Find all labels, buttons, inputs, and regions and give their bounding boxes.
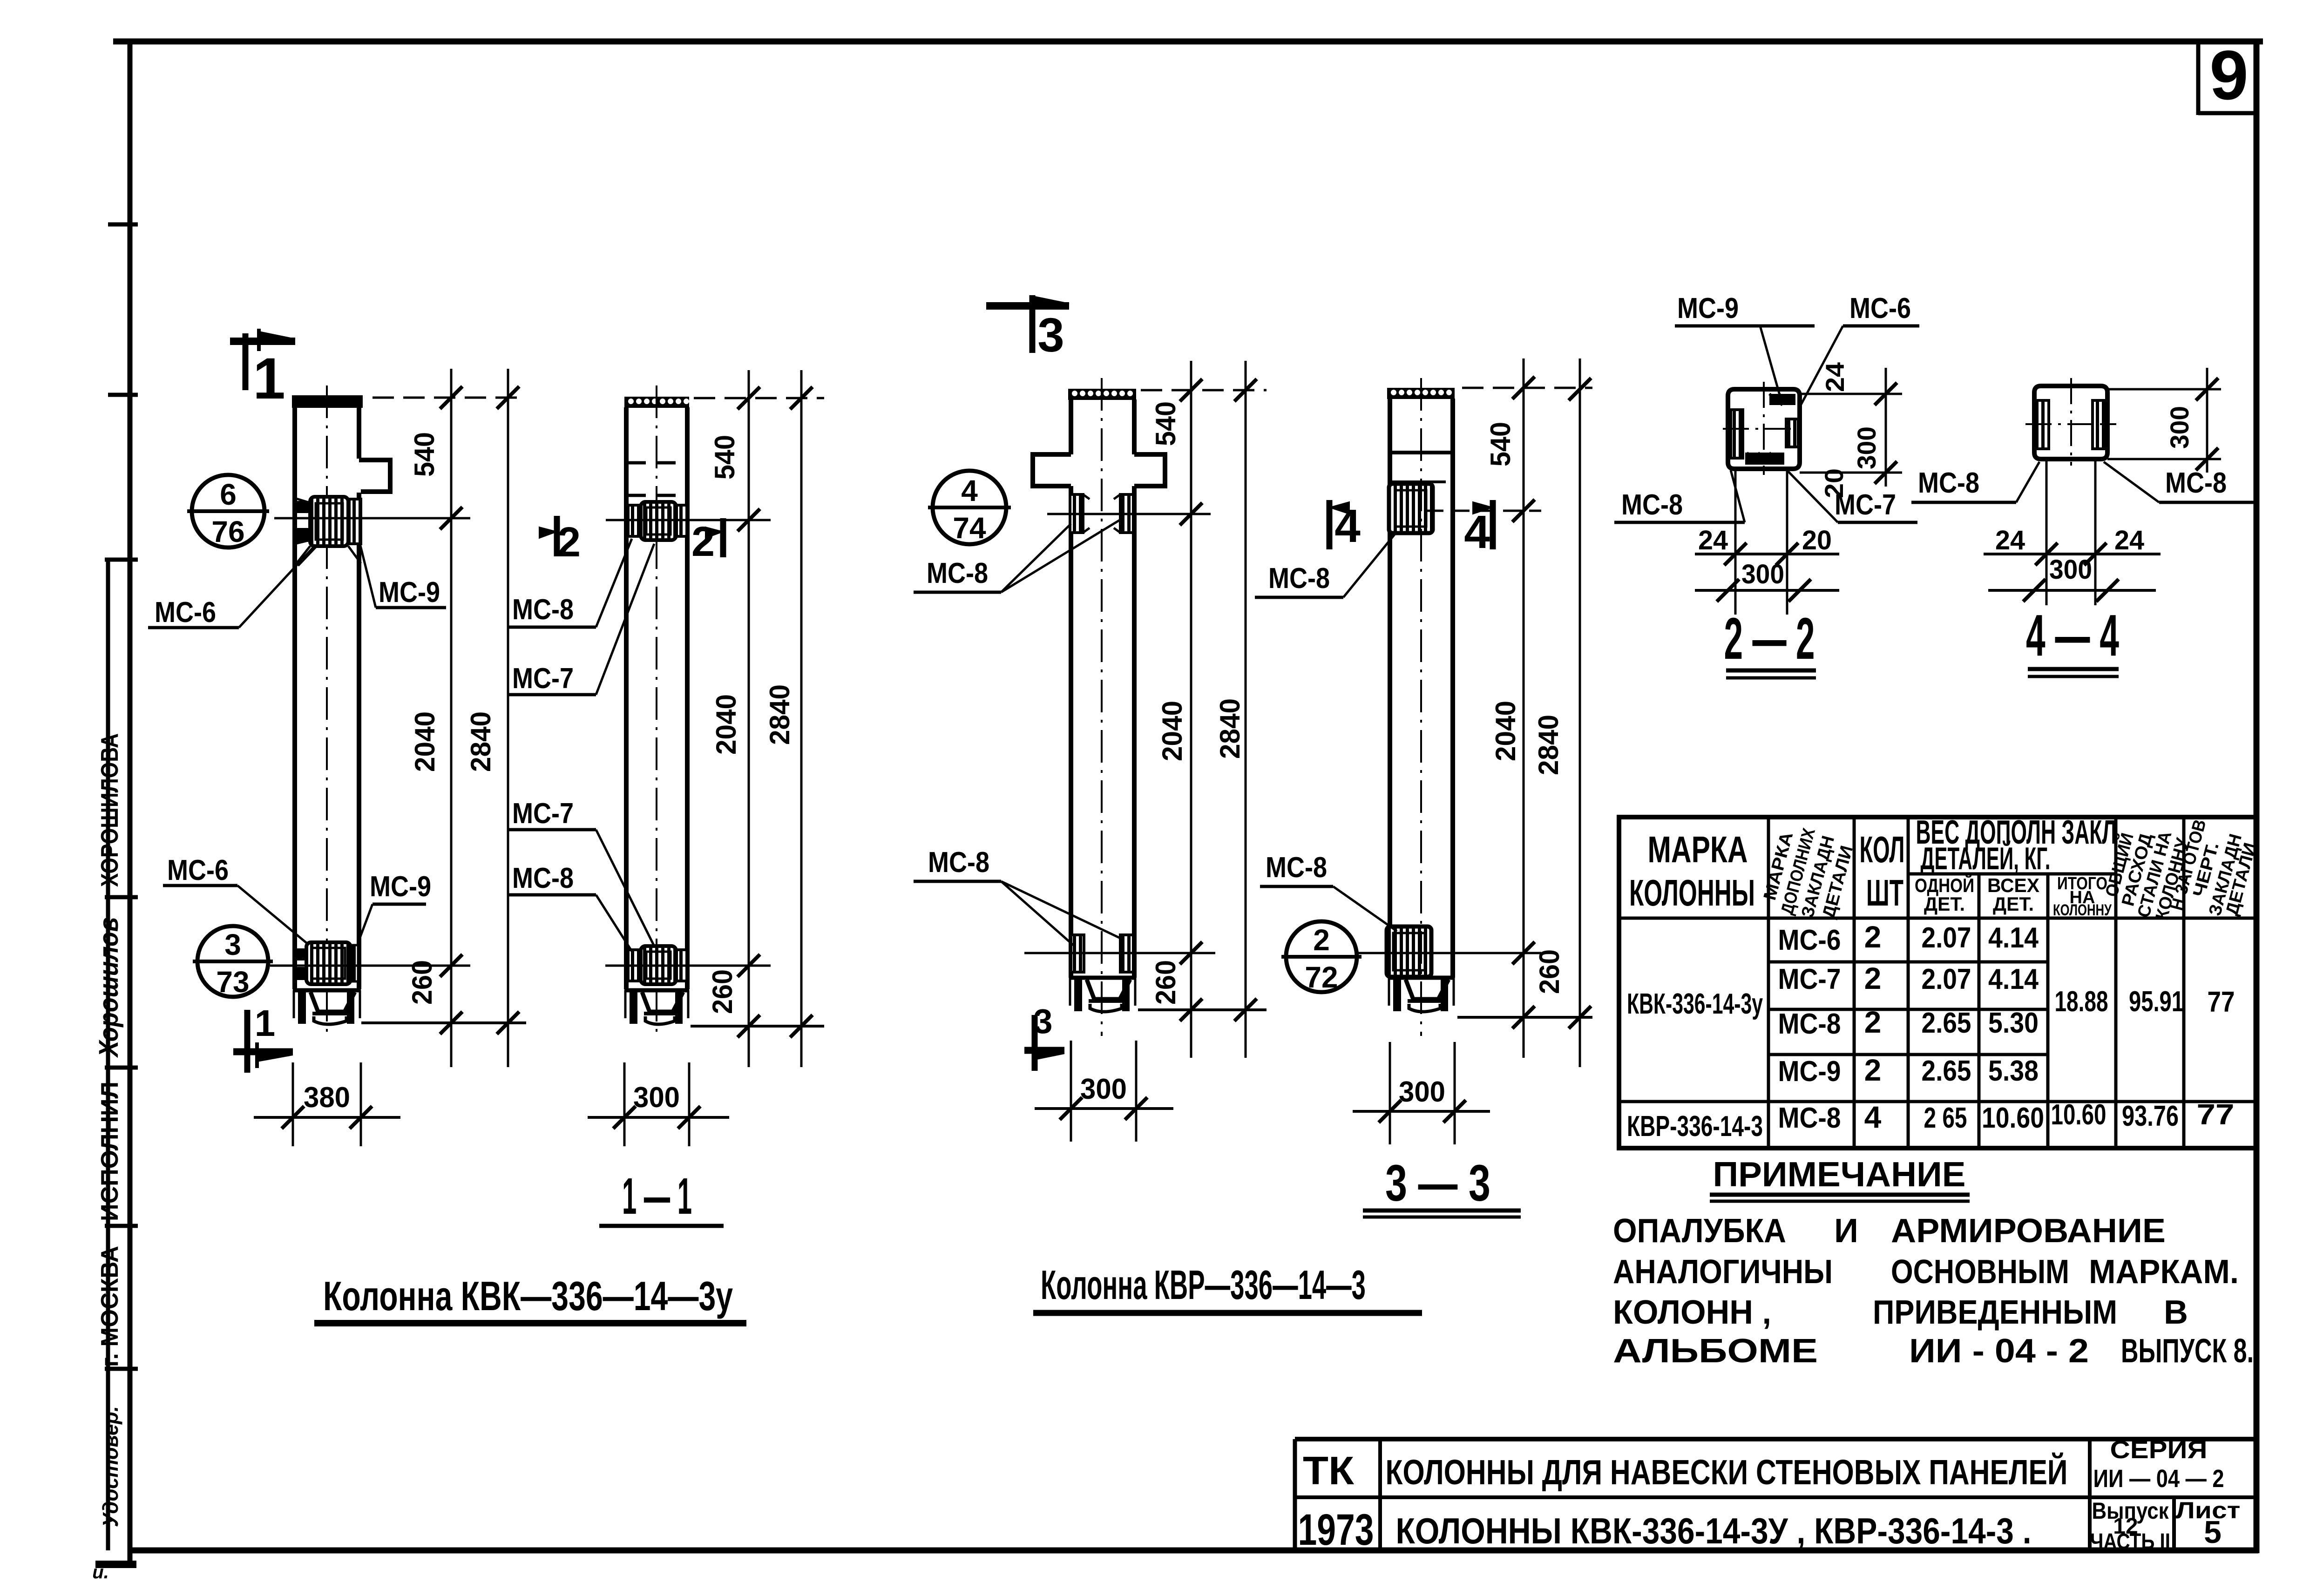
svg-text:20: 20 xyxy=(1819,468,1849,498)
svg-text:ВЫПУСК 8.: ВЫПУСК 8. xyxy=(2121,1332,2254,1370)
svg-text:КОЛОННЫ ДЛЯ НАВЕСКИ СТЕНОВЫХ П: КОЛОННЫ ДЛЯ НАВЕСКИ СТЕНОВЫХ ПАНЕЛЕЙ xyxy=(1386,1453,2068,1492)
svg-text:4: 4 xyxy=(1864,1100,1882,1134)
svg-text:МС-8: МС-8 xyxy=(1918,467,1979,499)
svg-text:260: 260 xyxy=(707,969,738,1014)
svg-text:Колонна КВК—336—14—3у: Колонна КВК—336—14—3у xyxy=(323,1273,733,1319)
svg-text:540: 540 xyxy=(1150,401,1181,446)
svg-text:2.65: 2.65 xyxy=(1922,1007,1971,1039)
svg-text:2.07: 2.07 xyxy=(1922,963,1971,995)
svg-text:2.65: 2.65 xyxy=(1922,1055,1971,1087)
svg-text:ШТ: ШТ xyxy=(1866,872,1903,913)
svg-text:ТК: ТК xyxy=(1303,1449,1354,1493)
svg-text:МС-8: МС-8 xyxy=(1266,852,1327,884)
svg-text:4: 4 xyxy=(961,474,978,507)
svg-text:АНАЛОГИЧНЫ: АНАЛОГИЧНЫ xyxy=(1613,1253,1833,1291)
svg-text:6: 6 xyxy=(220,478,237,511)
svg-text:24: 24 xyxy=(1820,362,1849,392)
svg-text:2840: 2840 xyxy=(1214,698,1246,759)
svg-text:СЕРИЯ: СЕРИЯ xyxy=(2110,1436,2208,1464)
svg-text:1: 1 xyxy=(255,1002,276,1044)
svg-text:МС-9: МС-9 xyxy=(379,576,440,609)
svg-text:24: 24 xyxy=(2114,525,2144,555)
svg-text:2: 2 xyxy=(1864,961,1882,995)
svg-text:КВР-336-14-3: КВР-336-14-3 xyxy=(1627,1110,1763,1143)
svg-text:300: 300 xyxy=(1399,1076,1445,1108)
svg-text:Колонна КВР—336—14—3: Колонна КВР—336—14—3 xyxy=(1041,1262,1366,1308)
svg-text:2040: 2040 xyxy=(1490,701,1521,761)
svg-text:4.14: 4.14 xyxy=(1988,922,2039,954)
svg-text:5.38: 5.38 xyxy=(1988,1055,2039,1087)
svg-text:2 — 2: 2 — 2 xyxy=(1724,606,1815,671)
svg-text:ДЕТ.: ДЕТ. xyxy=(1924,893,1965,915)
svg-text:3: 3 xyxy=(1033,1002,1052,1041)
svg-text:МС-8: МС-8 xyxy=(2165,467,2227,499)
svg-text:300: 300 xyxy=(633,1082,680,1114)
svg-text:260: 260 xyxy=(1150,960,1181,1005)
svg-text:77: 77 xyxy=(2197,1099,2235,1131)
svg-text:г. МОСКВА: г. МОСКВА xyxy=(96,1246,123,1367)
svg-text:и.: и. xyxy=(92,1562,109,1582)
svg-text:540: 540 xyxy=(709,435,740,480)
svg-text:380: 380 xyxy=(304,1082,350,1114)
svg-text:МАРКАМ.: МАРКАМ. xyxy=(2089,1253,2239,1291)
svg-text:АЛЬБОМЕ: АЛЬБОМЕ xyxy=(1613,1332,1818,1370)
svg-text:Хорошилов: Хорошилов xyxy=(94,917,124,1058)
svg-text:МС-8: МС-8 xyxy=(1778,1102,1841,1134)
svg-text:ИИ — 04 — 2: ИИ — 04 — 2 xyxy=(2093,1465,2224,1493)
svg-text:3: 3 xyxy=(224,928,241,961)
svg-text:300: 300 xyxy=(2165,406,2194,449)
svg-text:540: 540 xyxy=(409,432,440,477)
svg-text:4: 4 xyxy=(1334,500,1361,552)
svg-text:МС-8: МС-8 xyxy=(928,846,989,879)
svg-text:МС-8: МС-8 xyxy=(512,862,574,894)
svg-text:300: 300 xyxy=(1852,426,1881,469)
svg-text:95.91: 95.91 xyxy=(2129,986,2184,1018)
svg-text:МС-9: МС-9 xyxy=(1677,292,1739,325)
svg-text:2: 2 xyxy=(1864,1053,1882,1087)
svg-text:2840: 2840 xyxy=(1533,715,1564,775)
svg-text:МС-9: МС-9 xyxy=(370,871,431,903)
svg-text:ХОРОШИЛОВА: ХОРОШИЛОВА xyxy=(96,733,123,887)
svg-text:300: 300 xyxy=(1080,1073,1127,1105)
svg-text:76: 76 xyxy=(211,515,244,548)
svg-text:260: 260 xyxy=(406,960,438,1005)
svg-text:КОЛОННУ: КОЛОННУ xyxy=(2053,901,2112,919)
svg-text:МС-6: МС-6 xyxy=(1778,924,1841,956)
svg-text:2040: 2040 xyxy=(1157,701,1188,761)
svg-text:МС-6: МС-6 xyxy=(155,596,216,629)
svg-text:3 — 3: 3 — 3 xyxy=(1385,1155,1490,1212)
svg-text:ЧАСТЬ II: ЧАСТЬ II xyxy=(2090,1529,2170,1554)
svg-text:1973: 1973 xyxy=(1298,1505,1374,1555)
svg-text:1 — 1: 1 — 1 xyxy=(622,1168,692,1225)
svg-text:10.60: 10.60 xyxy=(2051,1099,2107,1131)
svg-text:2: 2 xyxy=(1864,920,1882,954)
svg-text:ДЕТ.: ДЕТ. xyxy=(1993,893,2034,915)
svg-text:3: 3 xyxy=(1037,308,1064,362)
svg-text:20: 20 xyxy=(1802,525,1832,555)
svg-text:И: И xyxy=(1834,1212,1858,1250)
svg-text:9: 9 xyxy=(2209,36,2248,114)
svg-text:МС-7: МС-7 xyxy=(512,798,574,830)
svg-text:2040: 2040 xyxy=(711,694,742,755)
svg-text:КВК-336-14-3у: КВК-336-14-3у xyxy=(1627,988,1763,1020)
svg-text:МС-8: МС-8 xyxy=(1621,489,1683,521)
svg-text:2: 2 xyxy=(691,519,715,565)
svg-text:5.30: 5.30 xyxy=(1988,1007,2039,1039)
svg-text:73: 73 xyxy=(216,965,249,999)
svg-text:74: 74 xyxy=(953,511,986,545)
svg-text:МС-8: МС-8 xyxy=(1778,1008,1841,1040)
svg-text:300: 300 xyxy=(2049,555,2092,585)
svg-text:ИСПОЛНИЛ: ИСПОЛНИЛ xyxy=(96,1082,123,1221)
svg-text:72: 72 xyxy=(1305,960,1338,994)
svg-text:АРМИРОВАНИЕ: АРМИРОВАНИЕ xyxy=(1891,1212,2166,1250)
svg-text:ДЕТАЛЕЙ, КГ.: ДЕТАЛЕЙ, КГ. xyxy=(1921,840,2051,876)
svg-text:КОЛ: КОЛ xyxy=(1860,829,1905,870)
svg-text:4 — 4: 4 — 4 xyxy=(2026,602,2119,668)
svg-text:МС-7: МС-7 xyxy=(1778,963,1841,995)
svg-text:4.14: 4.14 xyxy=(1988,963,2039,995)
svg-text:В: В xyxy=(2164,1294,2188,1331)
svg-text:1: 1 xyxy=(253,346,285,411)
svg-text:300: 300 xyxy=(1741,559,1784,589)
svg-text:МС-9: МС-9 xyxy=(1778,1055,1841,1088)
svg-text:24: 24 xyxy=(1698,525,1728,555)
svg-text:МАРКА: МАРКА xyxy=(1648,829,1748,870)
svg-text:2: 2 xyxy=(1864,1005,1882,1039)
svg-text:ПРИВЕДЕННЫМ: ПРИВЕДЕННЫМ xyxy=(1873,1294,2117,1331)
svg-text:2040: 2040 xyxy=(409,711,440,772)
svg-text:МС-6: МС-6 xyxy=(1849,292,1911,325)
svg-text:ОПАЛУБКА: ОПАЛУБКА xyxy=(1613,1212,1786,1250)
svg-text:КОЛОННЫ: КОЛОННЫ xyxy=(1629,872,1755,913)
svg-text:24: 24 xyxy=(1995,525,2025,555)
svg-text:2.07: 2.07 xyxy=(1922,922,1971,954)
svg-text:КОЛОННЫ КВК-336-14-3У , КВР-33: КОЛОННЫ КВК-336-14-3У , КВР-336-14-3 . xyxy=(1396,1510,2032,1551)
svg-text:77: 77 xyxy=(2208,986,2235,1018)
svg-text:4: 4 xyxy=(1464,506,1490,558)
svg-text:МС-7: МС-7 xyxy=(512,663,574,695)
svg-text:2: 2 xyxy=(1313,923,1330,957)
svg-text:2: 2 xyxy=(557,519,581,566)
svg-text:МС-8: МС-8 xyxy=(1268,562,1330,595)
svg-text:ОСНОВНЫМ: ОСНОВНЫМ xyxy=(1891,1253,2069,1291)
svg-text:18.88: 18.88 xyxy=(2055,986,2108,1018)
svg-text:5: 5 xyxy=(2204,1515,2222,1550)
svg-text:КОЛОНН ,: КОЛОНН , xyxy=(1613,1294,1771,1331)
svg-text:Удостовер.: Удостовер. xyxy=(98,1406,122,1527)
svg-text:МС-8: МС-8 xyxy=(512,594,574,626)
svg-text:ПРИМЕЧАНИЕ: ПРИМЕЧАНИЕ xyxy=(1713,1155,1966,1194)
svg-text:2840: 2840 xyxy=(465,711,496,772)
svg-text:260: 260 xyxy=(1534,949,1565,994)
svg-text:МС-6: МС-6 xyxy=(167,854,229,886)
svg-text:540: 540 xyxy=(1485,422,1516,467)
svg-text:МС-8: МС-8 xyxy=(927,557,988,589)
svg-text:2840: 2840 xyxy=(764,684,795,745)
svg-text:ИИ - 04 - 2: ИИ - 04 - 2 xyxy=(1909,1332,2089,1370)
svg-text:2 65: 2 65 xyxy=(1924,1102,1967,1134)
svg-text:93.76: 93.76 xyxy=(2122,1100,2179,1132)
svg-text:10.60: 10.60 xyxy=(1982,1102,2044,1134)
